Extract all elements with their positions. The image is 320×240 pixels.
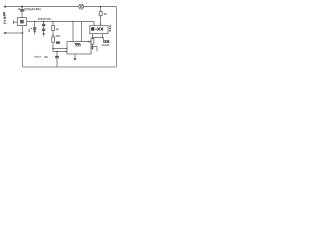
svg-text:4k7: 4k7 bbox=[87, 40, 92, 43]
svg-text:v/o≈: v/o≈ bbox=[34, 55, 41, 59]
svg-text:47k: 47k bbox=[55, 34, 60, 38]
svg-text:220uF/40v: 220uF/40v bbox=[24, 7, 41, 11]
svg-text:1k: 1k bbox=[55, 27, 59, 31]
svg-text:1k: 1k bbox=[104, 12, 108, 16]
svg-text:100uF/16v: 100uF/16v bbox=[38, 17, 52, 21]
svg-text:1N4148: 1N4148 bbox=[102, 44, 110, 47]
